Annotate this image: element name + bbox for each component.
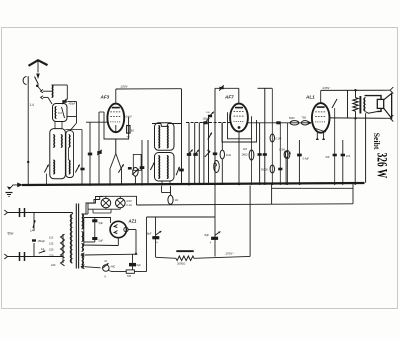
capacitor C7: [278, 123, 287, 185]
label 200V: [120, 85, 129, 89]
svg-text:×K: ×K: [104, 259, 108, 263]
coil can T2 windings: [66, 131, 74, 178]
svg-text:326 W: 326 W: [374, 153, 390, 179]
svg-text:110: 110: [49, 236, 54, 240]
coil L3b: [167, 126, 168, 149]
wire v2: [193, 123, 199, 186]
svg-text:2000Ω: 2000Ω: [177, 262, 185, 266]
wire rail 200V: [116, 88, 182, 90]
resistor R7 70: [301, 117, 308, 125]
speaker field choke: [162, 186, 179, 204]
svg-text:+: +: [156, 241, 158, 245]
wire 255V rail: [156, 186, 251, 259]
output transformer T3 core: [359, 96, 361, 114]
svg-text:125: 125: [49, 242, 54, 246]
svg-text:0.3M: 0.3M: [279, 148, 285, 152]
choke 5000: [289, 117, 299, 125]
transformer T4 primary: [70, 213, 72, 264]
svg-text:1MΩ: 1MΩ: [242, 153, 248, 157]
label 1M: [242, 153, 248, 157]
coil can T1 outline: [50, 129, 66, 179]
wire coupling: [248, 122, 311, 124]
potentiometer P2 hum: [81, 259, 115, 279]
fuse F1: [30, 213, 45, 257]
svg-text:4HC: 4HC: [111, 266, 116, 269]
svg-text:200V: 200V: [120, 85, 129, 89]
svg-text:1A: 1A: [41, 247, 45, 251]
wire AZ1 bottom: [118, 230, 137, 255]
coil L2a: [53, 135, 55, 148]
label 50w: [8, 232, 15, 236]
capacitor C5: [140, 140, 148, 185]
coil L3a: [158, 126, 159, 149]
lamp LP2: [116, 196, 126, 208]
svg-text:Seibt: Seibt: [372, 133, 382, 150]
resistor R8 field: [353, 89, 358, 120]
label 245V: [322, 86, 331, 90]
svg-text:150: 150: [49, 248, 54, 252]
svg-text:70Ω: 70Ω: [302, 117, 307, 120]
coil L1 wave trap can: [53, 104, 68, 122]
padder switch S2a: [44, 165, 48, 185]
svg-text:AL1: AL1: [305, 95, 315, 100]
lamp Fe oval: [214, 161, 220, 173]
wire v12: [354, 118, 356, 185]
IFT1 can outline: [155, 123, 175, 151]
svg-text:50000: 50000: [261, 169, 269, 172]
padder switch S2b: [75, 165, 79, 173]
wire dial feed long: [127, 196, 353, 205]
node band-switch contacts: [37, 86, 43, 99]
svg-text:0.1A: 0.1A: [126, 203, 132, 207]
wire legs to bus: [110, 168, 135, 185]
svg-text:220: 220: [49, 254, 54, 258]
wire AF7 top rail: [215, 88, 239, 104]
svg-text:K: K: [105, 275, 107, 279]
wire v7: [263, 88, 267, 185]
resistor R6 0.3M: [279, 123, 290, 185]
screen box AF3: [104, 112, 129, 139]
switch S1 antenna: [35, 77, 39, 88]
wire AF3 cathode legs: [110, 139, 121, 168]
lamp LP1: [100, 196, 127, 208]
trimmer C2 400pF: [62, 99, 76, 106]
svg-text:8μF: 8μF: [137, 264, 142, 267]
svg-text:8μF: 8μF: [205, 233, 210, 237]
potentiometer P1: [128, 154, 141, 176]
wire speaker drop: [365, 113, 367, 183]
capacitor C15 8uF: [205, 184, 221, 257]
wire v2c: [203, 123, 205, 186]
ground symbol: [6, 183, 24, 197]
svg-text:0.4μF: 0.4μF: [303, 158, 310, 161]
capacitor C9 2nF: [276, 121, 280, 124]
capacitor C3: [80, 150, 84, 185]
label AF3: [100, 95, 110, 100]
wire HT to AZ1: [84, 218, 111, 224]
wire v8 top link: [258, 87, 273, 89]
antenna A1: [29, 60, 48, 79]
IFT2 can outline: [155, 153, 175, 182]
coil L2c: [53, 160, 54, 174]
label 1.4: [30, 103, 35, 107]
rail 245V: [321, 89, 390, 91]
wire v6: [258, 123, 262, 185]
wire AF7 plate down: [238, 132, 240, 186]
wire v5 1Mohm: [243, 139, 254, 185]
wire v4: [213, 88, 217, 185]
svg-text:245V: 245V: [322, 86, 331, 90]
wire v3 with 4V trimmer: [205, 112, 214, 185]
coil L0 antenna coupling: [43, 85, 67, 100]
capacitor C12 5uF: [92, 218, 103, 243]
speaker LS yoke: [365, 96, 382, 114]
trimmer C6 on AF7 rail: [219, 85, 223, 90]
wire v2b: [198, 123, 200, 186]
mains lead bottom: [4, 234, 63, 263]
wire antenna left drop: [27, 85, 29, 185]
title Seibt: [372, 133, 382, 150]
svg-text:50: 50: [131, 129, 135, 133]
svg-text:4V: 4V: [207, 149, 210, 153]
svg-text:8μF: 8μF: [147, 232, 152, 236]
svg-text:AZ1: AZ1: [128, 219, 138, 224]
svg-text:+0: +0: [127, 134, 131, 138]
resistor R2 diagonal: [118, 164, 123, 172]
coil L2b: [61, 135, 63, 148]
coil L4a: [158, 156, 159, 179]
svg-text:5000: 5000: [289, 117, 295, 120]
svg-text:+0.2V: +0.2V: [124, 114, 132, 118]
svg-text:2nF: 2nF: [346, 155, 351, 158]
heater line: [81, 253, 136, 257]
speaker LS cone: [384, 93, 392, 118]
svg-text:+: +: [210, 241, 212, 245]
wire can tops: [55, 122, 82, 151]
wire v11: [347, 90, 349, 118]
svg-text:240: 240: [51, 263, 56, 267]
wire AZ1 out: [128, 217, 215, 272]
capacitor C13 5uF: [84, 218, 119, 246]
wire trap to tuning cans: [43, 97, 77, 130]
grid resistor R5: [208, 133, 212, 140]
resistor R3 blob: [179, 168, 184, 185]
wire AL1 top to 245V rail: [320, 91, 322, 104]
resistor R9 2000ohm: [176, 250, 194, 265]
resistor R1 50ohm cathode: [127, 126, 135, 139]
resistor R4 1k: [220, 123, 231, 185]
wire IFT bottom to bus: [162, 181, 170, 185]
svg-text:3.0: 3.0: [58, 111, 62, 115]
capacitor C8 0.5uF: [299, 122, 301, 124]
wire sec top to lamps: [82, 197, 104, 215]
grid wire AVC to AF7: [186, 118, 230, 125]
svg-text:1A: 1A: [30, 229, 34, 233]
label 4.5V 0.1A: [126, 199, 132, 207]
svg-text:1kΩ: 1kΩ: [226, 153, 231, 157]
tube AZ1: [110, 221, 128, 237]
wire rail drop to IFT: [181, 89, 183, 168]
transformer T4 taps: [49, 234, 65, 267]
svg-text:1M: 1M: [243, 147, 248, 151]
grid cap AL1: [308, 121, 312, 125]
switch S5: [332, 99, 337, 185]
wire v9 0.1M: [261, 89, 281, 186]
screen box AF7: [222, 112, 257, 142]
svg-text:4.5V: 4.5V: [126, 199, 132, 203]
rail speaker bottom: [330, 117, 391, 119]
trimmer S3 left: [150, 162, 154, 170]
mains lead top: [4, 208, 72, 217]
trimmer S4 right: [176, 167, 180, 175]
label AZ1: [128, 219, 138, 224]
wire v1: [187, 123, 193, 186]
svg-text:5nF: 5nF: [326, 156, 331, 159]
wire v10: [341, 140, 351, 185]
speaker LS coil box: [377, 99, 383, 108]
chassis bus: [22, 182, 365, 186]
cap C11: [326, 154, 337, 159]
tube AF7: [230, 104, 248, 132]
capacitor C1 antenna series: [23, 76, 28, 85]
output transformer T3 primary: [364, 98, 366, 112]
wire grid to AF3: [86, 112, 107, 122]
svg-text:100pF: 100pF: [203, 118, 210, 121]
resistor R10 700: [109, 270, 147, 278]
wire lamps left: [88, 196, 100, 209]
cap C10: [297, 140, 309, 185]
svg-text:AF3: AF3: [100, 95, 110, 100]
capacitor C4 on AVC wire: [88, 122, 92, 185]
plate line AL1 right: [329, 117, 331, 119]
coil L4b: [167, 156, 168, 179]
wire IFT tops: [152, 124, 182, 127]
svg-text:700: 700: [127, 274, 132, 278]
svg-text:1.4: 1.4: [30, 103, 35, 107]
svg-text:5μF: 5μF: [99, 239, 104, 243]
resistor R11: [284, 151, 292, 185]
transformer T4 secondaries: [82, 214, 84, 268]
label +0.2V: [124, 114, 132, 118]
terminal fork bottom: [390, 115, 393, 121]
svg-text:5μF: 5μF: [99, 221, 104, 225]
wire lamps bottom: [84, 208, 120, 214]
label AF7: [224, 95, 234, 100]
svg-text:AF7: AF7: [224, 95, 234, 100]
transformer T4 core: [76, 204, 78, 269]
tube AL1: [312, 103, 330, 140]
capacitor C14 8uF: [147, 217, 161, 257]
tube AF3: [107, 104, 124, 133]
svg-text:50w: 50w: [8, 232, 15, 236]
svg-text:400pF: 400pF: [69, 103, 76, 106]
wire AF3 plate to rail: [115, 89, 117, 104]
svg-text:150μF: 150μF: [38, 239, 46, 243]
svg-text:1/2: 1/2: [175, 198, 179, 202]
label AL1: [305, 95, 315, 100]
terminal fork top: [390, 87, 393, 93]
wire box right: [272, 183, 353, 204]
wire grid column: [97, 112, 101, 185]
capacitor C16 8uF: [129, 254, 141, 271]
title 326 W: [374, 153, 390, 179]
svg-text:255V -: 255V -: [225, 252, 235, 256]
